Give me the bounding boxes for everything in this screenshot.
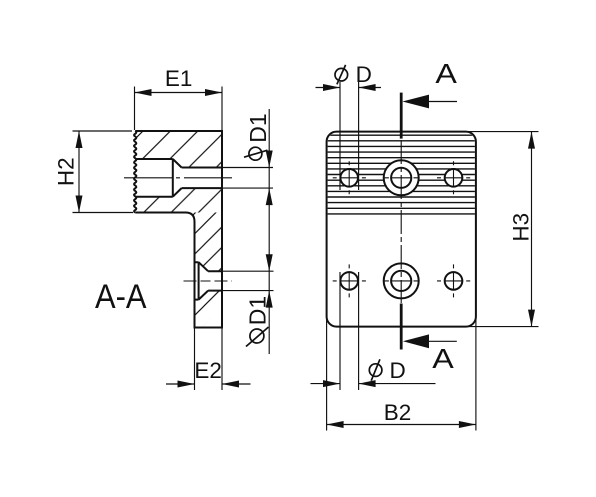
big hole top outer [384,160,419,195]
H3 dimension line [531,132,533,327]
B2 arrowhead left [327,421,344,428]
svg-text:E2: E2 [194,358,222,383]
knurl lines [327,135,476,214]
B2 extension lines [327,318,476,431]
E2 arrowhead left [178,381,195,388]
dimension D1 lower [222,254,274,346]
svg-text:E1: E1 [165,66,193,91]
vertical center line [400,140,402,303]
dimension E2 [166,328,251,390]
svg-text:D1: D1 [245,113,271,142]
dimension H3 [467,132,539,327]
H3 arrowhead bottom [528,310,535,327]
D bottom dimension line [311,383,436,385]
part outline [135,131,222,328]
center crosses row 1 left [333,177,366,179]
section arrow top [402,95,429,109]
D1 upper extension lines [222,168,273,189]
small hole top-left [340,169,358,187]
E1 arrowhead right [205,89,222,96]
small hole bottom-right [445,272,463,290]
center cross row 2 right [437,280,470,282]
center line hole 1 [124,177,232,179]
D1 upper label [244,113,271,160]
dimension B2 [327,318,476,431]
dimension D bottom [311,272,436,390]
E2 extension lines [195,328,223,390]
small hole top-right [445,169,463,187]
E1 dimension line [135,92,223,94]
section arrow bottom [403,334,429,348]
E1 extension lines [135,87,223,131]
H3 arrowhead top [528,132,535,149]
D bottom arrowhead left [323,380,340,387]
B2 dimension line [327,424,476,426]
dimension H2 [54,131,134,213]
svg-text:D: D [356,62,372,87]
counterbore cavity hole 2 (white) [195,262,223,299]
H2 arrowhead bottom [76,196,83,213]
center line hole 2 [184,280,233,282]
svg-text:A: A [432,343,454,374]
part body cross-section: vertical leg (hatched) [186,213,223,328]
svg-text:A-A: A-A [95,278,147,316]
D top arrowhead left [323,84,340,91]
countersunk hole 1 outline [135,159,222,197]
small hole bottom-left [340,272,358,290]
counterbore cavity hole 1 (white) [134,159,222,197]
D1 lower extension lines [222,271,274,290]
knurled left face (wavy edge) [134,131,136,213]
D1 lower arrowhead down [266,254,273,271]
svg-text:H3: H3 [509,213,534,242]
center cross row 1 right [437,177,470,179]
svg-text:B2: B2 [384,400,412,425]
E1 arrowhead left [135,89,152,96]
big hole top inner [391,168,411,188]
part body cross-section: top bar (hatched) [135,131,222,213]
D1 lower arrowhead up [266,291,273,308]
E2 arrowhead right [222,381,239,388]
D1 lower label [245,296,271,347]
D1 upper arrowhead up [266,188,273,205]
B2 arrowhead right [459,421,476,428]
svg-text:H2: H2 [54,157,79,186]
section line A-A top segment [400,93,403,139]
D1 upper arrowhead down [266,151,273,168]
hatch trim at leg bottom corner [202,307,222,328]
dimension D top [316,62,382,190]
D bottom extension lines [340,272,359,390]
dimension D1 upper [222,109,273,354]
plate outline [327,132,476,327]
section line A-A bottom segment [400,304,403,350]
center cross row 2 big [384,280,419,282]
H3 extension lines [467,132,539,327]
H2 dimension line [78,131,80,213]
H2 extension lines [73,131,134,213]
center cross row 1 big [384,177,419,179]
dimension E1 [135,66,223,130]
D top dimension line [316,87,382,89]
svg-text:A: A [435,58,457,89]
svg-text:D1: D1 [245,296,271,325]
D top extension lines [340,82,359,190]
H2 arrowhead top [76,131,83,148]
center crosses row 2 left [333,280,366,282]
D1 dimension line vertical [268,109,270,354]
countersunk hole 2 outline [195,262,223,299]
big hole bottom outer [384,263,419,298]
D top arrowhead right [359,84,376,91]
E2 dimension line tails [166,383,251,385]
svg-text:D: D [390,358,406,383]
D bottom arrowhead right [359,380,376,387]
big hole bottom inner [391,271,411,291]
